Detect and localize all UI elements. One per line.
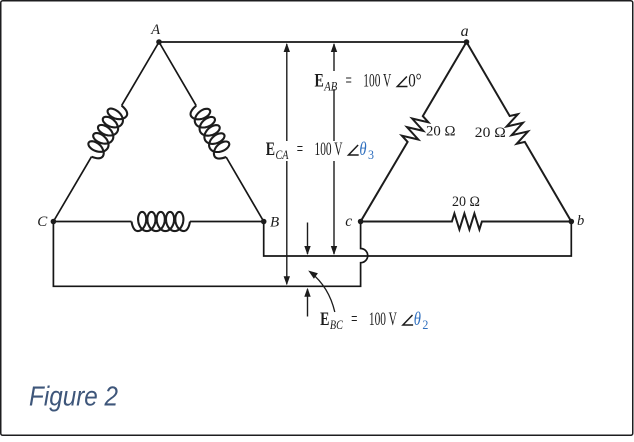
svg-text:AB: AB — [323, 78, 337, 93]
svg-text:a: a — [461, 23, 469, 40]
svg-text:100 V: 100 V — [315, 139, 343, 160]
svg-text:BC: BC — [330, 317, 343, 332]
svg-text:Figure 2: Figure 2 — [29, 381, 118, 412]
svg-text:E: E — [266, 139, 275, 160]
svg-text:B: B — [270, 215, 279, 231]
svg-text:CA: CA — [276, 147, 289, 162]
svg-text:=: = — [297, 139, 303, 160]
svg-text:3: 3 — [368, 147, 374, 162]
svg-text:=: = — [351, 309, 357, 330]
svg-text:100 V: 100 V — [369, 309, 397, 330]
svg-text:2: 2 — [422, 317, 428, 332]
svg-text:E: E — [315, 71, 324, 92]
svg-text:b: b — [577, 213, 584, 229]
svg-text:θ: θ — [414, 309, 421, 330]
svg-text:20 Ω: 20 Ω — [426, 124, 456, 140]
svg-text:20 Ω: 20 Ω — [452, 194, 480, 210]
svg-text:100 V: 100 V — [363, 71, 391, 92]
svg-text:A: A — [150, 22, 160, 38]
svg-text:E: E — [320, 309, 329, 330]
svg-text:C: C — [37, 214, 48, 230]
svg-text:0°: 0° — [408, 71, 422, 92]
svg-text:20 Ω: 20 Ω — [475, 125, 506, 141]
svg-text:c: c — [345, 213, 352, 230]
svg-text:=: = — [346, 71, 352, 92]
svg-text:θ: θ — [359, 139, 366, 160]
